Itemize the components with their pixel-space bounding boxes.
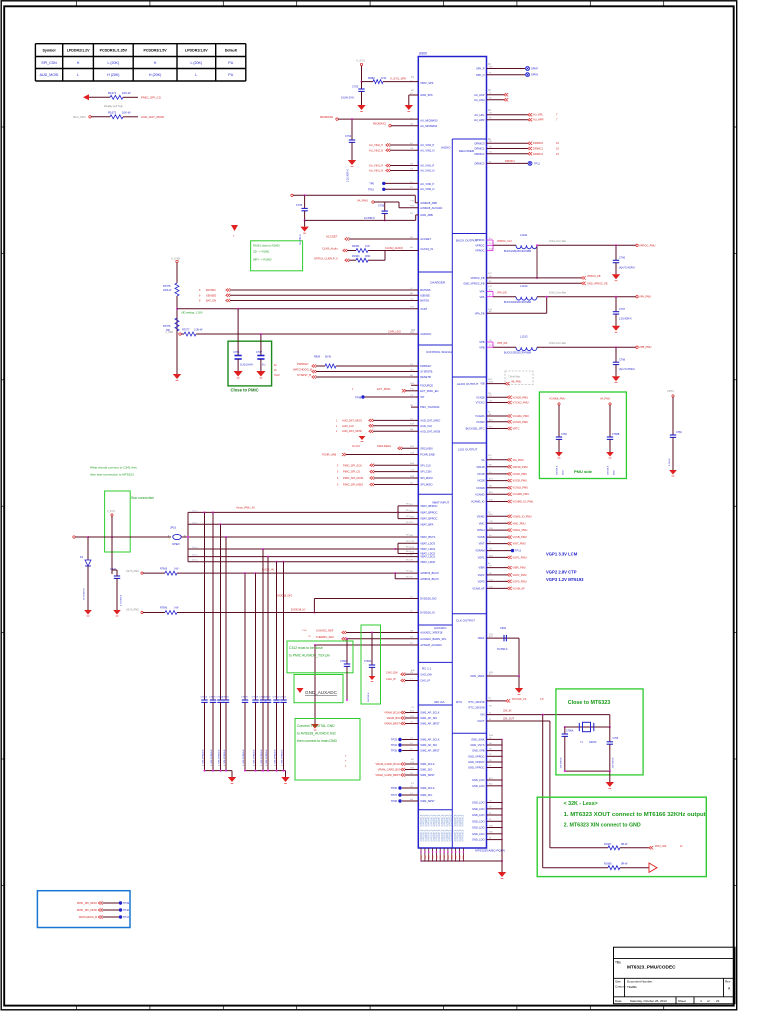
- svg-text:4.7U/6.3V/0603-K: 4.7U/6.3V/0603-K: [243, 749, 245, 766]
- svg-text:WIFI --> R1663: WIFI --> R1663: [253, 258, 272, 262]
- svg-text:TP33: TP33: [391, 738, 398, 742]
- svg-text:SIM2_AP_SRST: SIM2_AP_SRST: [420, 749, 440, 753]
- svg-text:AU_VIN2_P: AU_VIN2_P: [369, 143, 383, 147]
- svg-text:SIM2_AP_SIO: SIM2_AP_SIO: [420, 743, 437, 747]
- svg-text:SENSE0: SENSE0: [206, 293, 217, 297]
- svg-text:VMCH_PMU: VMCH_PMU: [513, 528, 528, 532]
- svg-text:56-W: 56-W: [325, 356, 332, 359]
- svg-text:R60: R60: [421, 856, 423, 859]
- svg-text:L1012: L1012: [520, 284, 528, 288]
- svg-text:V_USB: V_USB: [165, 331, 173, 334]
- svg-text:AVDD33_BUCK: AVDD33_BUCK: [420, 577, 439, 581]
- svg-text:AU_VIN2_N: AU_VIN2_N: [369, 148, 383, 152]
- svg-text:C7612: C7612: [280, 697, 287, 699]
- svg-text:VBAT_LDO1: VBAT_LDO1: [420, 555, 435, 559]
- svg-text:RTC32K_CK: RTC32K_CK: [512, 698, 527, 701]
- svg-text:TitleBlk: TitleBlk: [627, 985, 637, 989]
- svg-text:2. MT6323 XIN connect to GND: 2. MT6323 XIN connect to GND: [564, 822, 641, 828]
- svg-text:VGP3: VGP3: [478, 580, 485, 584]
- svg-text:C768: C768: [619, 358, 626, 361]
- svg-text:SPKN: SPKN: [531, 73, 538, 77]
- svg-text:PMU side: PMU side: [574, 469, 593, 474]
- svg-text:C766: C766: [619, 257, 626, 260]
- svg-text:MICBIAS1: MICBIAS1: [373, 122, 387, 126]
- svg-text:VCAM_AF: VCAM_AF: [472, 587, 485, 591]
- svg-text:R1671: R1671: [108, 91, 117, 95]
- svg-text:Default: Default: [225, 49, 238, 53]
- svg-text:AUD_CLK: AUD_CLK: [420, 424, 432, 428]
- svg-text:GND_SPK: GND_SPK: [420, 93, 433, 97]
- svg-text:R60: R60: [432, 856, 434, 859]
- svg-text:VMC_PMU: VMC_PMU: [513, 521, 526, 525]
- svg-text:SIM1_AP_SCLK: SIM1_AP_SCLK: [420, 711, 439, 715]
- svg-text:then star-connection to MT6323: then star-connection to MT6323: [90, 473, 134, 477]
- svg-text:GND_LDO: GND_LDO: [472, 826, 485, 830]
- svg-text:7.6mA Max: 7.6mA Max: [508, 376, 521, 379]
- svg-text:VBAT_BPROC: VBAT_BPROC: [420, 504, 437, 508]
- svg-text:TP6: TP6: [369, 181, 374, 185]
- svg-text:DRMIC2: DRMIC2: [475, 152, 486, 156]
- svg-text:C768A: C768A: [566, 730, 574, 733]
- svg-text:4.7U/6.3V/0603-K: 4.7U/6.3V/0603-K: [211, 749, 213, 766]
- svg-text:LPDDR2/1.2V: LPDDR2/1.2V: [67, 49, 90, 53]
- svg-text:AU_VIN0_N: AU_VIN0_N: [420, 187, 434, 191]
- svg-text:R909: R909: [314, 356, 321, 359]
- svg-text:(A)4.7U/X5R-K: (A)4.7U/X5R-K: [619, 368, 635, 371]
- svg-text:R1672: R1672: [108, 111, 117, 115]
- svg-text:VRAM_CARD_BRST: VRAM_CARD_BRST: [375, 773, 400, 777]
- svg-text:VB_PMU: VB_PMU: [511, 381, 521, 384]
- svg-text:DVDD18_DIG: DVDD18_DIG: [420, 597, 436, 601]
- svg-text:SYSRSTB: SYSRSTB: [420, 370, 432, 374]
- svg-text:PCHR_ENB: PCHR_ENB: [420, 453, 434, 457]
- svg-text:CHG_IP: CHG_IP: [420, 679, 430, 683]
- svg-text:VRTC: VRTC: [667, 389, 674, 393]
- svg-text:DRMIC3: DRMIC3: [505, 160, 515, 163]
- svg-text:GND_LDO: GND_LDO: [472, 813, 485, 817]
- svg-text:AUD_DAT_MOSI: AUD_DAT_MOSI: [342, 429, 362, 433]
- svg-text:0R-W: 0R-W: [621, 843, 628, 846]
- svg-text:MICBIAS0: MICBIAS0: [320, 115, 334, 119]
- svg-text:VBAT_BPROC: VBAT_BPROC: [420, 517, 437, 521]
- svg-text:R60: R60: [429, 856, 431, 859]
- svg-text:AU_HPR: AU_HPR: [474, 118, 485, 122]
- svg-text:10,11,5: 10,11,5: [352, 445, 360, 448]
- svg-text:CHG_IP: CHG_IP: [386, 677, 396, 681]
- svg-text:VGP2 2.8V CTP: VGP2 2.8V CTP: [546, 570, 577, 575]
- svg-text:Close to MT6323: Close to MT6323: [568, 700, 611, 706]
- svg-text:AUD_DAT_MOSI: AUD_DAT_MOSI: [420, 429, 440, 433]
- svg-text:Symbol: Symbol: [43, 49, 56, 53]
- svg-text:DVDD18_IO: DVDD18_IO: [420, 611, 434, 615]
- svg-text:AU_HSP: AU_HSP: [474, 93, 485, 97]
- svg-text:GND_VPROC: GND_VPROC: [468, 754, 485, 758]
- svg-text:USYS_PMU: USYS_PMU: [126, 609, 139, 612]
- svg-text:DRMIC3: DRMIC3: [475, 162, 486, 166]
- svg-text:C766A: C766A: [364, 660, 372, 663]
- svg-text:Date:: Date:: [615, 999, 622, 1003]
- svg-text:1U/X5R-K: 1U/X5R-K: [299, 234, 302, 245]
- svg-text:Saturday, October 26, 2013: Saturday, October 26, 2013: [630, 999, 667, 1003]
- svg-text:AUD_DAT_MISO: AUD_DAT_MISO: [420, 419, 440, 423]
- svg-text:BAT_ON: BAT_ON: [206, 299, 216, 303]
- svg-text:32K_OUT: 32K_OUT: [503, 718, 515, 721]
- svg-text:AVDD28_AUXADC: AVDD28_AUXADC: [420, 206, 442, 210]
- svg-text:VCDT: VCDT: [420, 307, 427, 311]
- svg-text:1U/X5R-K: 1U/X5R-K: [364, 217, 375, 220]
- svg-text:GND_LDO: GND_LDO: [472, 778, 485, 782]
- svg-text:DRMIC1: DRMIC1: [475, 147, 486, 151]
- svg-text:1U/X5R-K: 1U/X5R-K: [557, 465, 559, 475]
- svg-text:TP41: TP41: [123, 916, 130, 919]
- svg-text:PMIC_SPI_MISO: PMIC_SPI_MISO: [77, 901, 97, 905]
- svg-text:CHARGER: CHARGER: [430, 281, 446, 285]
- svg-text:SIM2_SCLK: SIM2_SCLK: [420, 786, 435, 790]
- svg-text:DRMIC1: DRMIC1: [533, 147, 544, 151]
- svg-text:CONTROL SIGNAL: CONTROL SIGNAL: [426, 350, 453, 354]
- svg-text:VGP1 3.3V LCM: VGP1 3.3V LCM: [546, 552, 578, 557]
- svg-text:AUXADC_REF: AUXADC_REF: [316, 629, 334, 633]
- svg-text:R60: R60: [463, 856, 465, 859]
- svg-text:BUCK4/1R0/DCR-P68M: BUCK4/1R0/DCR-P68M: [504, 301, 531, 304]
- svg-text:VIBR_PMU: VIBR_PMU: [513, 566, 526, 570]
- svg-text:AU_VIN1_N: AU_VIN1_N: [369, 169, 383, 173]
- svg-text:4.7U/6.3V/0603-K: 4.7U/6.3V/0603-K: [266, 749, 268, 766]
- svg-text:VRF18_PMU: VRF18_PMU: [513, 465, 528, 469]
- svg-text:[3ms]: [3ms]: [192, 560, 198, 562]
- svg-text:C7608: C7608: [241, 697, 248, 699]
- svg-text:4.7U/35V-K: 4.7U/35V-K: [121, 594, 123, 606]
- svg-text:VINT_PMU: VINT_PMU: [513, 542, 526, 546]
- svg-text:0R-W: 0R-W: [621, 863, 628, 866]
- svg-text:GND_VSYS: GND_VSYS: [470, 743, 484, 747]
- svg-text:1U: 1U: [262, 362, 265, 366]
- svg-text:VRTC: VRTC: [513, 427, 520, 431]
- svg-text:TP37: TP37: [391, 793, 398, 797]
- svg-text:SPK_N: SPK_N: [476, 73, 485, 77]
- svg-text:TP35: TP35: [391, 749, 398, 753]
- svg-text:ACCDET: ACCDET: [326, 235, 338, 239]
- svg-text:L (20K): L (20K): [107, 61, 119, 65]
- svg-text:RTC_32K2V8: RTC_32K2V8: [469, 706, 486, 710]
- svg-text:32K_IN: 32K_IN: [503, 710, 512, 713]
- svg-text:AU_MICBIAS1: AU_MICBIAS1: [420, 124, 438, 128]
- svg-text:VCN33: VCN33: [476, 420, 485, 424]
- svg-text:BUCK1/2R2/DCR-P68M: BUCK1/2R2/DCR-P68M: [504, 352, 531, 355]
- svg-text:Vmax_PMU_IN: Vmax_PMU_IN: [236, 506, 255, 510]
- svg-text:R7606: R7606: [160, 568, 168, 571]
- svg-text:SPK_P: SPK_P: [476, 67, 485, 71]
- svg-text:05TS/600-K: 05TS/600-K: [84, 588, 86, 600]
- svg-text:15P-NP0-K: 15P-NP0-K: [613, 757, 615, 768]
- svg-text:SIM1_SIO: SIM1_SIO: [420, 768, 432, 772]
- svg-text:C7605: C7605: [209, 697, 216, 699]
- svg-text:VGP1: VGP1: [478, 556, 485, 560]
- svg-text:VMCH: VMCH: [477, 528, 485, 532]
- svg-text:VCAMA: VCAMA: [475, 414, 484, 418]
- svg-text:GND_LDO: GND_LDO: [472, 784, 485, 788]
- svg-text:VPROC_PMU: VPROC_PMU: [639, 243, 656, 247]
- svg-text:L1011: L1011: [520, 233, 528, 237]
- svg-text:2.2U/X5R-K: 2.2U/X5R-K: [347, 169, 350, 182]
- svg-text:VUSB_PMU: VUSB_PMU: [513, 535, 527, 539]
- svg-text:PWRKEY: PWRKEY: [420, 364, 432, 368]
- svg-text:VRAM_BCLK: VRAM_BCLK: [384, 711, 400, 715]
- svg-text:VGP1_PMU: VGP1_PMU: [513, 555, 527, 559]
- svg-text:Custom: Custom: [615, 985, 626, 989]
- svg-text:CHRLDO: CHRLDO: [420, 332, 431, 336]
- svg-text:AU_HPL: AU_HPL: [533, 113, 544, 117]
- svg-text:PCDDR3L/1.35V: PCDDR3L/1.35V: [100, 49, 128, 53]
- svg-text:TP36: TP36: [391, 786, 398, 790]
- svg-text:GND_LDO: GND_LDO: [472, 838, 485, 842]
- svg-text:VBAT_BPA: VBAT_BPA: [420, 522, 433, 526]
- svg-text:C760: C760: [676, 431, 682, 434]
- svg-text:GND_VPB: GND_VPB: [472, 749, 485, 753]
- svg-text:WATCHDOG_B: WATCHDOG_B: [79, 915, 98, 919]
- svg-text:R60: R60: [440, 856, 442, 859]
- svg-text:R60: R60: [456, 856, 458, 859]
- svg-text:TP11: TP11: [534, 163, 540, 166]
- svg-text:VCN18: VCN18: [476, 486, 485, 490]
- svg-text:L: L: [195, 73, 197, 77]
- svg-text:GND_VPROC: GND_VPROC: [468, 760, 485, 764]
- svg-text:WATCHDOG_B: WATCHDOG_B: [293, 368, 312, 372]
- svg-text:30W: 30W: [365, 255, 371, 258]
- svg-text:VINT: VINT: [479, 542, 485, 546]
- svg-text:CHG_DW: CHG_DW: [386, 671, 398, 675]
- svg-text:of: of: [707, 999, 710, 1003]
- svg-text:TP39: TP39: [123, 902, 130, 905]
- svg-text:VPROC_FB: VPROC_FB: [471, 276, 485, 280]
- svg-text:VBAT_BPROC: VBAT_BPROC: [420, 511, 437, 515]
- svg-text:VCAMD: VCAMD: [475, 492, 484, 496]
- svg-text:VPROC: VPROC: [475, 238, 484, 242]
- svg-text:10K-W: 10K-W: [122, 91, 131, 95]
- svg-text:10U/6.3V-K: 10U/6.3V-K: [341, 96, 355, 100]
- svg-text:VPROC: VPROC: [475, 249, 484, 253]
- svg-text:0-W: 0-W: [174, 568, 179, 571]
- svg-text:PMIC_SPI_MOSI: PMIC_SPI_MOSI: [343, 476, 363, 480]
- svg-text:XOUT: XOUT: [477, 719, 485, 723]
- svg-text:C768A: C768A: [340, 660, 348, 663]
- svg-text:Connect TSX/XTAL GND: Connect TSX/XTAL GND: [297, 724, 335, 728]
- svg-text:C767: C767: [256, 350, 263, 354]
- svg-text:GND_LDO: GND_LDO: [472, 807, 485, 811]
- svg-text:AU_VIN2_P: AU_VIN2_P: [420, 143, 434, 147]
- svg-text:AU_HPR: AU_HPR: [533, 118, 544, 122]
- svg-text:R1661: R1661: [352, 245, 360, 248]
- svg-text:PCDDR3/1.5V: PCDDR3/1.5V: [144, 49, 168, 53]
- svg-text:VPB_PMU: VPB_PMU: [639, 345, 652, 349]
- svg-text:VPROC_1V2: VPROC_1V2: [497, 240, 512, 243]
- svg-text:DRMIC0: DRMIC0: [475, 141, 486, 145]
- svg-text:H: H: [154, 61, 157, 65]
- svg-text:V_SYS: V_SYS: [356, 59, 365, 63]
- svg-text:TP98: TP98: [355, 396, 362, 400]
- svg-text:AVDD28_ABB: AVDD28_ABB: [420, 201, 437, 205]
- svg-text:SRCLKEN: SRCLKEN: [420, 446, 432, 450]
- svg-text:1. MT6323 XOUT connect to MT61: 1. MT6323 XOUT connect to MT6166 32KHz o…: [564, 812, 706, 818]
- svg-text:C766: C766: [378, 204, 385, 208]
- svg-text:VPA_EN: VPA_EN: [497, 292, 507, 295]
- svg-text:JP10: JP10: [170, 526, 177, 530]
- svg-text:23: 23: [716, 999, 720, 1003]
- svg-text:[3ms]: [3ms]: [192, 510, 198, 512]
- svg-text:15P-NP0-K: 15P-NP0-K: [561, 757, 563, 768]
- svg-text:AU_HSN: AU_HSN: [474, 98, 485, 102]
- svg-text:R1663: R1663: [352, 255, 360, 258]
- svg-text:KPROW_0: KPROW_0: [462, 829, 465, 841]
- svg-text:VPA: VPA: [480, 290, 485, 294]
- svg-text:[3ms]: [3ms]: [192, 522, 198, 524]
- svg-text:4,5: 4,5: [540, 698, 544, 701]
- svg-text:R7676: R7676: [163, 325, 171, 328]
- svg-text:10K-W: 10K-W: [122, 111, 131, 115]
- svg-text:VBAT_LDO2: VBAT_LDO2: [420, 547, 435, 551]
- svg-text:Size: Size: [615, 980, 621, 984]
- svg-text:100K-W: 100K-W: [163, 290, 172, 292]
- svg-text:AUD_DAT_MOSI: AUD_DAT_MOSI: [141, 115, 164, 119]
- svg-text:R60: R60: [452, 856, 454, 859]
- svg-text:GND_LDO: GND_LDO: [472, 819, 485, 823]
- svg-text:USYS_PMU: USYS_PMU: [126, 570, 139, 573]
- svg-text:R60: R60: [459, 856, 461, 859]
- svg-text:PU: PU: [228, 61, 233, 65]
- svg-text:V_USB: V_USB: [171, 257, 180, 261]
- svg-text:PMIC_SPI_MISO: PMIC_SPI_MISO: [343, 483, 363, 487]
- svg-text:AU_VIN2_N: AU_VIN2_N: [420, 148, 434, 152]
- svg-text:VCN33_PMU: VCN33_PMU: [513, 420, 529, 424]
- svg-text:SPI_MOSI: SPI_MOSI: [420, 476, 433, 480]
- svg-text:SYSRST_B: SYSRST_B: [297, 373, 311, 377]
- svg-text:TP13: TP13: [515, 550, 522, 553]
- svg-text:C769: C769: [561, 433, 567, 436]
- svg-text:VBAT_BSYS: VBAT_BSYS: [420, 535, 435, 539]
- svg-text:U900: U900: [419, 52, 427, 56]
- svg-text:CLK OUTPUT: CLK OUTPUT: [456, 619, 475, 623]
- svg-text:OPEN: OPEN: [172, 542, 180, 546]
- svg-text:BAT0N0: BAT0N0: [206, 288, 216, 292]
- svg-text:2.2U/X5R-K: 2.2U/X5R-K: [619, 318, 632, 321]
- svg-text:0-W: 0-W: [365, 245, 370, 248]
- svg-text:VID setting: 1.26V: VID setting: 1.26V: [181, 311, 203, 315]
- svg-text:SIM2_SIO: SIM2_SIO: [420, 793, 432, 797]
- svg-text:VA_PMU: VA_PMU: [357, 199, 368, 203]
- svg-text:RTC_32K1V8: RTC_32K1V8: [469, 700, 486, 704]
- svg-text:TP34: TP34: [391, 743, 398, 747]
- svg-text:MT6323_PMU/CODEC: MT6323_PMU/CODEC: [627, 965, 676, 970]
- svg-text:VMC: VMC: [479, 521, 485, 525]
- svg-text:DRMIC2: DRMIC2: [533, 152, 544, 156]
- svg-text:VPB_WK: VPB_WK: [497, 342, 508, 345]
- svg-text:CLKSQ_AUDIO: CLKSQ_AUDIO: [385, 247, 403, 250]
- svg-text:TP10: TP10: [368, 187, 375, 191]
- svg-text:Weakly pull high: Weakly pull high: [104, 104, 123, 108]
- svg-text:AUXADC_VREF18: AUXADC_VREF18: [420, 631, 443, 635]
- svg-text:R13: R13: [411, 330, 416, 332]
- svg-text:DECODER: DECODER: [459, 149, 475, 153]
- svg-text:GND_SINK: GND_SINK: [471, 738, 485, 742]
- svg-text:VCN18_PMU: VCN18_PMU: [513, 486, 529, 490]
- svg-text:Close to PMIC: Close to PMIC: [231, 388, 259, 393]
- svg-text:VPA_PMU: VPA_PMU: [639, 295, 651, 299]
- svg-text:2X3x1.2mm Max: 2X3x1.2mm Max: [549, 241, 567, 243]
- svg-text:Star-connection: Star-connection: [131, 496, 154, 500]
- svg-text:VRAM_BRST: VRAM_BRST: [384, 722, 400, 726]
- svg-text:L (20K): L (20K): [190, 61, 202, 65]
- svg-text:H (20K): H (20K): [107, 73, 119, 77]
- svg-text:GND_LDO: GND_LDO: [472, 801, 485, 805]
- svg-text:VA: VA: [481, 458, 485, 462]
- svg-text:PMIC_SPI_MOSI: PMIC_SPI_MOSI: [77, 908, 97, 912]
- svg-text:VSIM2: VSIM2: [477, 514, 485, 518]
- svg-text:SIM2_SRST: SIM2_SRST: [420, 799, 435, 803]
- svg-text:GND_VPROC_FB: GND_VPROC_FB: [587, 283, 608, 286]
- svg-text:2X3x1.2mm Max: 2X3x1.2mm Max: [549, 343, 567, 345]
- svg-text:VPA_FB: VPA_FB: [475, 311, 485, 315]
- svg-text:VRF18: VRF18: [476, 465, 485, 469]
- svg-text:VCAM_AF: VCAM_AF: [513, 586, 526, 590]
- svg-text:CLK8_Audio: CLK8_Audio: [322, 247, 338, 251]
- svg-text:SIM1_AP_SIO: SIM1_AP_SIO: [420, 716, 437, 720]
- svg-text:2X3x1.2mm Max: 2X3x1.2mm Max: [549, 293, 567, 295]
- svg-text:VPROC: VPROC: [475, 243, 484, 247]
- svg-text:DVDD18_DIG: DVDD18_DIG: [276, 594, 292, 598]
- svg-text:SRCLKENA: SRCLKENA: [377, 444, 391, 448]
- svg-text:VGP2_PMU: VGP2_PMU: [513, 573, 527, 577]
- svg-text:[3ms]: [3ms]: [192, 555, 198, 557]
- svg-text:32KHZ: 32KHZ: [589, 741, 597, 744]
- svg-text:ALDO OUTPUT: ALDO OUTPUT: [457, 382, 479, 386]
- svg-text:4.7U/6.3V/0603-K: 4.7U/6.3V/0603-K: [224, 749, 226, 766]
- svg-text:VCAMD_IO_PMU: VCAMD_IO_PMU: [513, 500, 534, 504]
- svg-text:PMU_32K: PMU_32K: [655, 845, 667, 848]
- svg-text:Sheet: Sheet: [678, 999, 686, 1003]
- svg-text:L: L: [77, 73, 79, 77]
- svg-text:VIB: VIB: [480, 382, 484, 386]
- svg-text:GND_VPROC: GND_VPROC: [468, 766, 485, 770]
- svg-text:AVSS28_AUXADC: AVSS28_AUXADC: [420, 643, 442, 647]
- svg-text:R7675: R7675: [163, 285, 171, 288]
- svg-text:R7696: R7696: [160, 607, 168, 610]
- svg-text:AU_VIN1_P: AU_VIN1_P: [420, 164, 434, 168]
- svg-text:C768B: C768B: [612, 433, 620, 436]
- svg-text:C7607: C7607: [264, 697, 271, 699]
- svg-text:PMIC_SPI_SCK: PMIC_SPI_SCK: [343, 463, 362, 467]
- svg-text:VPROC_FB: VPROC_FB: [587, 275, 601, 278]
- svg-text:< 32K - Less>: < 32K - Less>: [564, 801, 598, 807]
- svg-text:V_SYS_SPK: V_SYS_SPK: [390, 77, 406, 81]
- svg-text:CHG_DW: CHG_DW: [420, 672, 432, 676]
- svg-text:GND_ABB: GND_ABB: [420, 213, 433, 217]
- svg-text:Title: Title: [615, 961, 621, 965]
- svg-text:EXT_PMIC: EXT_PMIC: [377, 387, 390, 391]
- svg-text:VBAT INPUT: VBAT INPUT: [432, 501, 450, 505]
- svg-text:C312 must to be close: C312 must to be close: [289, 646, 323, 650]
- svg-text:VCAMA_PMU: VCAMA_PMU: [513, 414, 530, 418]
- svg-text:SIM1_SCLK: SIM1_SCLK: [420, 762, 435, 766]
- svg-text:R1661 close to R1663: R1661 close to R1663: [253, 244, 280, 248]
- svg-text:VCN28: VCN28: [476, 395, 485, 399]
- svg-text:TP38: TP38: [391, 799, 398, 803]
- svg-text:4.7U/6.3V/0603-K: 4.7U/6.3V/0603-K: [281, 749, 283, 766]
- svg-text:AU_VIN1_P: AU_VIN1_P: [369, 164, 383, 168]
- svg-text:SIM1_SRST: SIM1_SRST: [420, 773, 435, 777]
- svg-text:PMIC_SPI_CS: PMIC_SPI_CS: [343, 470, 360, 474]
- svg-text:SD --> R1661: SD --> R1661: [253, 250, 270, 254]
- svg-text:C766: C766: [613, 737, 619, 740]
